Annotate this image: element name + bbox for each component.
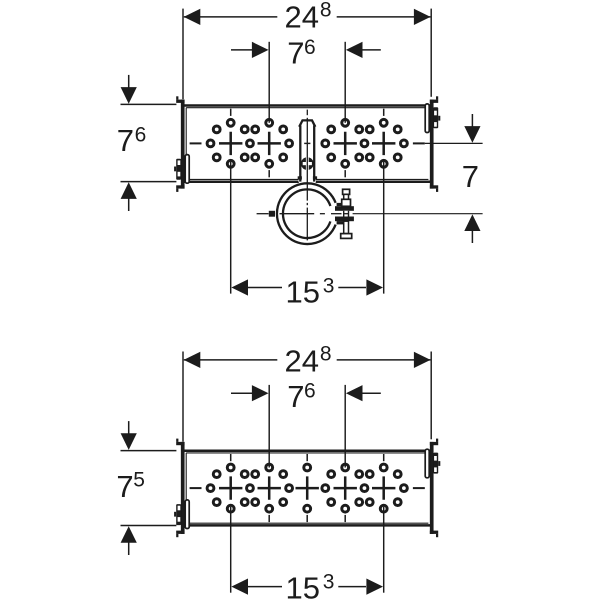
svg-text:7: 7 [462, 159, 479, 194]
svg-text:7: 7 [117, 123, 134, 158]
plate edges (top view) [185, 106, 431, 182]
plate centerline (top view) [190, 142, 425, 144]
svg-text:7: 7 [287, 36, 304, 71]
wall-anchor clip (top view, lower left) [174, 155, 189, 184]
dimension 7.6 (bottom view hole spacing) [231, 379, 381, 467]
clamp tension screw [341, 189, 352, 238]
left wall bracket (top view) [176, 96, 184, 192]
dimension 7 (top view clamp axis offset, right) [353, 114, 483, 243]
svg-text:24: 24 [285, 344, 319, 379]
dimension 7.6 (top view hole spacing) [231, 36, 381, 123]
svg-text:5: 5 [133, 468, 145, 491]
right wall bracket (bottom view) [430, 439, 438, 538]
dimension 15.3 (bottom view outer hole spacing) [231, 507, 384, 600]
svg-text:7: 7 [287, 379, 304, 414]
svg-text:15: 15 [286, 570, 320, 600]
svg-text:8: 8 [320, 342, 332, 365]
svg-text:7: 7 [116, 469, 133, 504]
plate edges (bottom view) [185, 451, 431, 526]
wall-anchor clip (bottom view, lower left) [174, 500, 189, 529]
dimension 15.3 (top view outer hole spacing) [231, 162, 384, 310]
svg-text:3: 3 [323, 275, 335, 298]
left wall bracket (bottom view) [176, 439, 184, 538]
svg-text:24: 24 [285, 0, 319, 35]
dimension 7.6 (top view plate height, left) [117, 75, 177, 211]
plate centerline (bottom view) [190, 487, 425, 489]
channel fixing bolt (cross-slot) [301, 157, 314, 170]
right wall bracket (top view) [430, 96, 438, 192]
dimension 24.8 (bottom view overall width) [183, 342, 431, 441]
pipe clamp ring (top view) [269, 183, 354, 244]
svg-text:6: 6 [304, 379, 316, 402]
svg-text:3: 3 [323, 570, 335, 593]
svg-text:6: 6 [135, 124, 147, 147]
dimension 24.8 (top view overall width) [183, 0, 431, 99]
svg-text:8: 8 [320, 0, 332, 22]
hole pattern with center crosses (top view) [207, 109, 407, 178]
central mounting channel (top view) [298, 120, 317, 182]
wall-anchor clip (top view, upper right) [425, 104, 440, 133]
svg-text:15: 15 [286, 275, 320, 310]
dimension 7.5 (bottom view plate height, left) [116, 421, 176, 555]
svg-text:6: 6 [304, 36, 316, 59]
wall-anchor clip (bottom view, upper right) [425, 449, 440, 478]
assembly vertical centerline [304, 110, 310, 241]
hole pattern with center crosses (bottom view) [207, 454, 407, 522]
clamp horizontal centerline [257, 213, 349, 215]
